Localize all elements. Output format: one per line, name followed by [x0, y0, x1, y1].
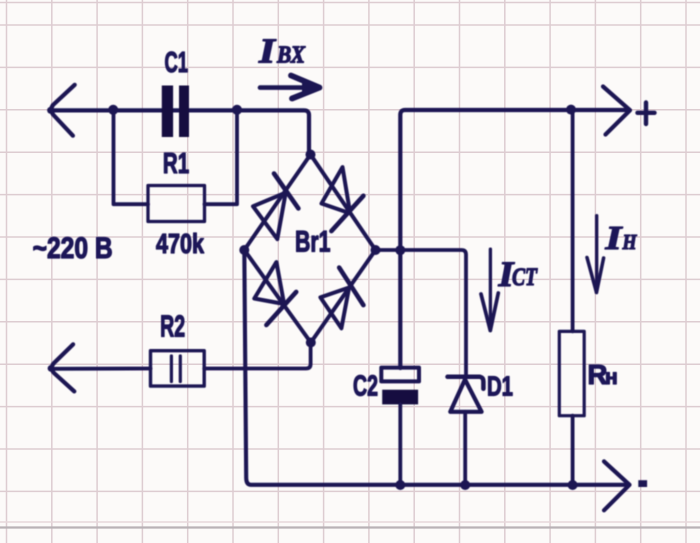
arrow Iн load current — [587, 216, 604, 293]
wire D1 bottom lead — [463, 412, 467, 485]
wire AC line 1 top: arrow end to bridge top — [50, 110, 309, 154]
svg-text:R1: R1 — [163, 148, 189, 180]
wire DC minus: bridge left vertex down to bottom rail — [244, 250, 628, 485]
svg-text:I: I — [258, 31, 277, 70]
wire R1 branch left — [114, 110, 149, 204]
diode top-left of Br1: cathode bar — [274, 174, 298, 209]
minus sign — [638, 480, 647, 487]
label Iст — [497, 254, 538, 294]
svg-text:Н: Н — [622, 230, 638, 254]
wire bridge right vertex to D1 branch — [376, 250, 467, 377]
wire AC line 2 left of R2 — [50, 367, 151, 371]
diode bottom-left of Br1: triangle — [254, 262, 284, 304]
wire R1 branch right — [205, 111, 238, 204]
svg-text:C1: C1 — [165, 47, 189, 79]
wire R2 to bridge bottom vertex — [204, 343, 310, 369]
plus sign — [638, 103, 655, 125]
node Br1 bottom vertex (AC) — [306, 338, 316, 348]
capacitor C2 top plate (outline) — [381, 368, 419, 382]
arrow Iвх current direction — [260, 76, 320, 99]
arrow AC input 2 (left, bottom) — [48, 344, 75, 391]
svg-text:D1: D1 — [487, 370, 513, 401]
arrow head + output terminal — [603, 87, 630, 135]
label Iвх input current — [258, 31, 306, 70]
node junction dot C2 on minus rail — [395, 480, 405, 490]
wire DC plus rail: from C2 top up and right to + terminal — [400, 110, 629, 368]
zener diode D1 cathode bar with hook — [448, 377, 484, 389]
arrow Iст stabilizer current — [481, 249, 498, 330]
resistor R2 body — [151, 351, 205, 386]
diode bottom-right of Br1: triangle — [320, 288, 349, 329]
svg-text:~220 В: ~220 В — [33, 232, 113, 265]
capacitor C1 plates — [162, 86, 189, 138]
svg-text:Br1: Br1 — [295, 226, 331, 259]
node Br1 top vertex (AC) — [306, 150, 316, 160]
svg-text:I: I — [604, 220, 623, 257]
node Br1 left vertex (DC minus) — [239, 245, 249, 255]
diode bottom-left of Br1: cathode bar — [266, 292, 296, 325]
node Br1 right vertex (DC plus) — [371, 245, 381, 255]
diode top-right of Br1: cathode bar — [331, 196, 363, 231]
diode top-right of Br1: triangle — [322, 167, 351, 213]
node junction dot left of C1 — [108, 105, 118, 115]
node junction dot right of C1 — [232, 105, 242, 115]
node junction dot on C2 riser — [395, 245, 405, 255]
capacitor C2 bottom plate (solid) — [382, 390, 418, 405]
wire C2 bottom lead — [398, 404, 402, 484]
node junction dot D1 on minus rail — [460, 480, 470, 490]
svg-text:R2: R2 — [160, 309, 185, 344]
svg-text:470k: 470k — [156, 228, 205, 259]
svg-text:СТ: СТ — [512, 262, 538, 291]
zener diode D1 triangle — [450, 380, 481, 412]
arrow AC input 1 (left, top) — [47, 85, 75, 136]
svg-text:н: н — [605, 366, 618, 389]
arrow head - output terminal — [604, 461, 630, 510]
resistor R2 inner bars — [171, 356, 180, 382]
diode top-left of Br1: triangle — [253, 193, 286, 240]
diode bottom-right of Br1: cathode bar — [339, 268, 363, 306]
node junction dot to Rn branch — [566, 105, 576, 115]
svg-text:ВХ: ВХ — [276, 41, 305, 68]
node junction dot Rн on minus rail — [568, 480, 578, 490]
resistor Rн body — [559, 331, 584, 415]
resistor R1 body — [148, 186, 205, 222]
wire Rн bottom lead — [571, 416, 575, 485]
label Iн — [604, 220, 637, 257]
label Rн — [588, 359, 618, 390]
wire Rн top lead — [571, 110, 575, 331]
bridge rectifier Br1 diamond edges — [244, 155, 375, 343]
svg-text:C2: C2 — [353, 371, 378, 403]
